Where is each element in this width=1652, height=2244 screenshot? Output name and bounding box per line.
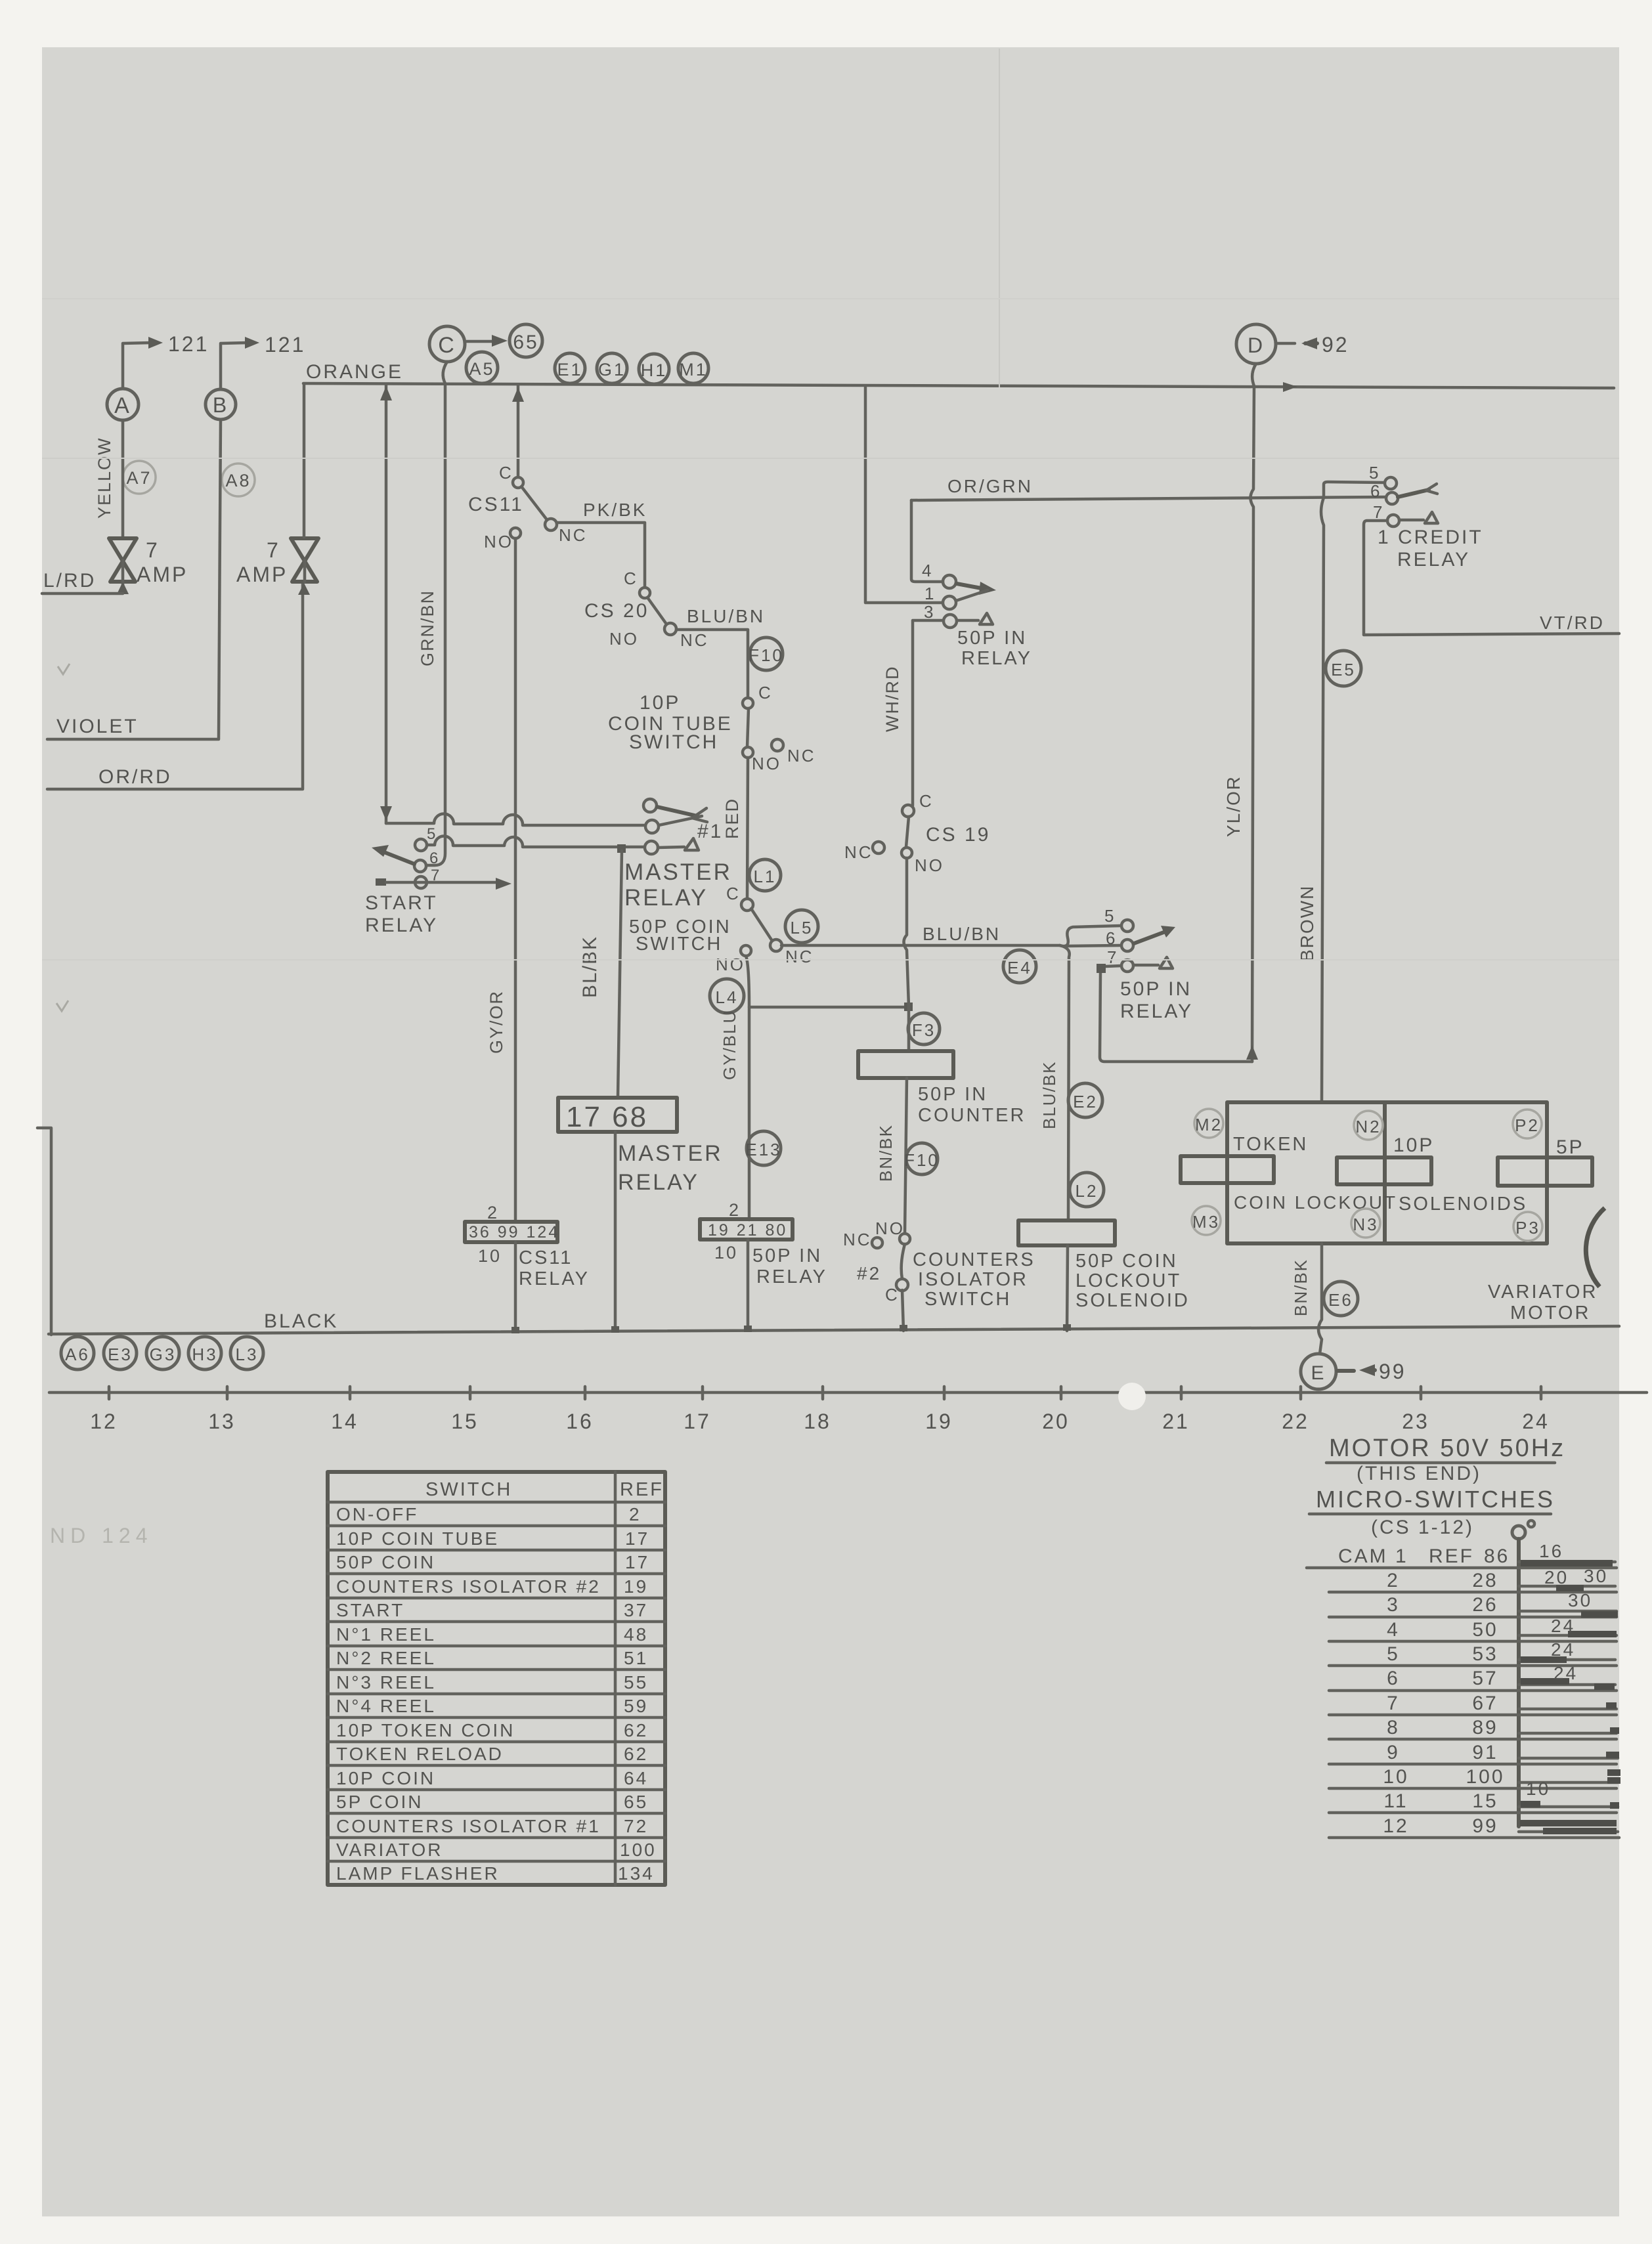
label MASTER RELAY (switch)	[624, 859, 732, 911]
svg-text:64: 64	[624, 1768, 648, 1788]
junction dots on black bus	[511, 1324, 1071, 1333]
svg-text:17: 17	[684, 1410, 711, 1433]
node L4	[710, 979, 744, 1013]
svg-text:CAM 1: CAM 1	[1338, 1545, 1408, 1567]
svg-text:YELLOW: YELLOW	[95, 437, 114, 519]
svg-text:20: 20	[1042, 1410, 1070, 1433]
svg-text:OR/RD: OR/RD	[98, 766, 172, 788]
svg-text:23: 23	[1402, 1410, 1429, 1433]
svg-text:18: 18	[804, 1410, 831, 1433]
svg-text:37: 37	[624, 1600, 648, 1620]
svg-text:AMP: AMP	[236, 563, 288, 586]
wire fuse2 up to ORANGE corner	[303, 384, 306, 537]
svg-text:36 99 124: 36 99 124	[469, 1223, 559, 1241]
svg-text:NO: NO	[609, 629, 639, 649]
scanner streak 2	[42, 959, 1619, 960]
wire isolator C to black bus	[902, 1290, 903, 1331]
fuse F2 7 AMP	[291, 538, 318, 595]
wire L4 branch to WH/RD	[749, 1003, 913, 1011]
svg-text:8: 8	[1387, 1717, 1400, 1738]
wire OR/RD	[47, 584, 303, 789]
svg-text:9: 9	[1387, 1742, 1400, 1763]
svg-text:134: 134	[618, 1863, 655, 1884]
svg-text:CS 19: CS 19	[926, 824, 990, 846]
node N3	[1351, 1209, 1380, 1238]
node G3	[146, 1337, 179, 1370]
svg-text:N°3 REEL: N°3 REEL	[336, 1672, 436, 1693]
svg-text:10P: 10P	[1393, 1134, 1434, 1156]
svg-text:L3: L3	[236, 1345, 259, 1364]
node E13	[745, 1131, 781, 1165]
node F10	[749, 637, 784, 670]
coin lockout solenoids box	[1227, 1102, 1547, 1243]
svg-text:10: 10	[1383, 1766, 1408, 1788]
svg-text:M2: M2	[1195, 1115, 1223, 1134]
node E6	[1324, 1282, 1358, 1316]
svg-text:RELAY: RELAY	[519, 1268, 590, 1289]
svg-text:N°4 REEL: N°4 REEL	[336, 1696, 436, 1716]
wire 50p NO down	[746, 956, 749, 1220]
fuse F1 7 AMP	[109, 538, 137, 582]
svg-text:SOLENOID: SOLENOID	[1076, 1290, 1190, 1311]
svg-text:P3: P3	[1515, 1218, 1540, 1238]
svg-text:NO: NO	[915, 855, 944, 875]
svg-text:A6: A6	[65, 1345, 90, 1364]
svg-text:MOTOR: MOTOR	[1510, 1303, 1590, 1324]
cam degree labels	[1526, 1541, 1608, 1799]
cam chart right upper lines	[1519, 1562, 1618, 1832]
wire 50p in relay coil to black bus	[747, 1240, 750, 1330]
node 65	[510, 324, 542, 357]
svg-text:M3: M3	[1192, 1212, 1220, 1232]
svg-text:50P IN: 50P IN	[752, 1245, 822, 1266]
svg-text:67: 67	[1472, 1693, 1498, 1714]
label CS11 RELAY	[519, 1247, 590, 1289]
svg-text:100: 100	[1466, 1766, 1504, 1788]
svg-text:E: E	[1311, 1362, 1326, 1384]
svg-text:GY/BLU: GY/BLU	[720, 1010, 739, 1080]
switch CS19	[844, 791, 990, 875]
svg-text:A5: A5	[469, 359, 494, 379]
wire B to 121	[221, 337, 259, 389]
svg-text:C: C	[758, 683, 773, 702]
svg-text:VARIATOR: VARIATOR	[1488, 1282, 1598, 1303]
svg-text:N°1 REEL: N°1 REEL	[336, 1624, 436, 1645]
svg-text:LOCKOUT: LOCKOUT	[1076, 1270, 1181, 1291]
svg-text:L1: L1	[754, 867, 777, 886]
svg-text:1 CREDIT: 1 CREDIT	[1378, 527, 1483, 548]
wire master coil to black bus	[614, 1132, 617, 1330]
svg-text:50P COIN: 50P COIN	[336, 1552, 435, 1572]
svg-text:A: A	[114, 393, 131, 418]
wire bus2 (with hops)	[425, 836, 646, 847]
svg-text:3: 3	[1387, 1594, 1400, 1616]
svg-text:10P COIN: 10P COIN	[336, 1768, 435, 1788]
svg-text:17 68: 17 68	[566, 1101, 648, 1133]
svg-text:5: 5	[1387, 1643, 1400, 1665]
wire GY/OR (CS11 NO down to relay box)	[514, 538, 517, 1220]
svg-text:6: 6	[1387, 1668, 1400, 1689]
svg-text:16: 16	[566, 1410, 594, 1433]
switch table rows	[336, 1504, 657, 1884]
svg-text:NC: NC	[843, 1230, 872, 1249]
svg-text:5: 5	[1104, 906, 1116, 926]
svg-text:91: 91	[1472, 1742, 1498, 1763]
svg-text:SWITCH: SWITCH	[629, 731, 718, 753]
node P3	[1513, 1212, 1542, 1241]
svg-text:PK/BK: PK/BK	[583, 500, 647, 520]
node L5	[785, 910, 818, 943]
svg-text:C: C	[726, 884, 741, 903]
svg-text:86: 86	[1484, 1545, 1510, 1567]
svg-text:L/RD: L/RD	[43, 570, 96, 592]
svg-text:C: C	[438, 333, 456, 358]
svg-text:CS 20: CS 20	[584, 600, 649, 622]
svg-text:48: 48	[624, 1624, 648, 1645]
label 50P IN COUNTER	[918, 1084, 1026, 1126]
svg-text:LAMP FLASHER: LAMP FLASHER	[336, 1863, 500, 1884]
wire BN/BK box to E node	[1318, 1243, 1322, 1354]
svg-text:NC: NC	[787, 746, 816, 766]
svg-text:BLU/BN: BLU/BN	[687, 606, 765, 626]
svg-text:121: 121	[265, 333, 305, 356]
wire fuse A bottom arrow	[117, 582, 129, 594]
svg-text:N°2 REEL: N°2 REEL	[336, 1648, 436, 1668]
svg-text:62: 62	[624, 1720, 648, 1740]
node H3	[188, 1337, 221, 1370]
svg-text:START: START	[365, 892, 438, 914]
node M3	[1192, 1206, 1221, 1235]
counter box 50P IN COUNTER	[858, 1051, 953, 1078]
wire BLU/BN horizontal	[781, 944, 1060, 947]
wire bus1 (with hops)	[386, 813, 647, 825]
svg-text:NO: NO	[875, 1219, 905, 1238]
svg-text:13: 13	[208, 1410, 236, 1433]
switch 50P IN RELAY (right)	[1104, 906, 1175, 972]
svg-text:7: 7	[1107, 947, 1118, 967]
node M2	[1194, 1109, 1223, 1138]
svg-text:53: 53	[1472, 1643, 1498, 1665]
svg-text:65: 65	[513, 332, 538, 353]
svg-text:99: 99	[1379, 1360, 1406, 1383]
node A6	[61, 1337, 94, 1370]
wire counter to isolator switch	[905, 1078, 907, 1234]
svg-text:NC: NC	[680, 630, 709, 650]
wire L/RD	[42, 592, 123, 595]
ruler line	[49, 1391, 1647, 1394]
svg-text:L4: L4	[716, 987, 739, 1007]
svg-text:10P COIN TUBE: 10P COIN TUBE	[336, 1528, 499, 1549]
label 10P COIN TUBE SWITCH	[608, 692, 733, 753]
label 50P IN RELAY (right switch)	[1120, 978, 1193, 1022]
svg-text:BLACK: BLACK	[264, 1310, 338, 1332]
svg-text:NO: NO	[752, 754, 781, 773]
wire CS11 relay to black bus	[514, 1242, 517, 1330]
label 7 AMP (F2)	[236, 538, 288, 586]
switch 50P IN RELAY contacts 4-1-3	[922, 561, 996, 628]
wire VT/RD	[1364, 634, 1619, 635]
svg-text:6: 6	[1106, 928, 1117, 948]
svg-text:5: 5	[427, 825, 437, 843]
node F3	[908, 1013, 940, 1045]
svg-text:15: 15	[451, 1410, 479, 1433]
svg-text:1: 1	[924, 584, 936, 603]
svg-text:24: 24	[1551, 1616, 1575, 1636]
svg-text:#2: #2	[857, 1263, 881, 1284]
node D (circle)	[1236, 324, 1276, 364]
svg-text:ORANGE: ORANGE	[306, 361, 403, 383]
relay coil box MASTER RELAY 17 68	[558, 1098, 677, 1133]
node H1	[639, 354, 669, 384]
node A5	[466, 352, 498, 383]
svg-text:E1: E1	[557, 360, 582, 379]
svg-text:BLU/BK: BLU/BK	[1039, 1061, 1059, 1130]
svg-text:121: 121	[168, 332, 209, 356]
svg-text:19: 19	[925, 1410, 953, 1433]
svg-text:G3: G3	[150, 1345, 177, 1364]
label 50P COIN SWITCH	[629, 917, 731, 955]
svg-text:VIOLET: VIOLET	[56, 716, 139, 737]
wire YL/OR (D down to relay loop)	[1251, 364, 1257, 1062]
svg-text:P2: P2	[1515, 1115, 1540, 1135]
svg-text:7: 7	[146, 538, 160, 562]
svg-text:B: B	[213, 393, 228, 417]
label 7 AMP (F1)	[137, 538, 188, 586]
svg-text:START: START	[336, 1600, 404, 1620]
svg-text:89: 89	[1472, 1717, 1498, 1738]
svg-text:99: 99	[1472, 1815, 1498, 1837]
svg-text:H3: H3	[192, 1345, 217, 1364]
wire RED	[747, 758, 748, 899]
svg-text:10: 10	[714, 1243, 738, 1262]
wire GRN/BN (C line down to contact 6)	[427, 384, 445, 865]
scanner streak 1	[42, 458, 1619, 459]
wire BLU/BN to F10 corner	[676, 630, 748, 698]
svg-text:COUNTERS ISOLATOR #1: COUNTERS ISOLATOR #1	[336, 1816, 601, 1836]
wire left edge stub	[37, 1128, 51, 1335]
svg-text:BN/BK: BN/BK	[1291, 1259, 1311, 1316]
svg-text:50: 50	[1472, 1619, 1498, 1641]
svg-text:19: 19	[624, 1576, 648, 1597]
node N2	[1354, 1111, 1383, 1140]
wire orange down to CS11 C	[512, 385, 524, 477]
variator motor arc	[1586, 1208, 1605, 1287]
svg-text:20: 20	[1544, 1567, 1569, 1587]
svg-text:50P IN: 50P IN	[1120, 978, 1192, 1000]
scanner streak 3	[42, 298, 1619, 299]
svg-text:10P TOKEN COIN: 10P TOKEN COIN	[336, 1720, 515, 1740]
svg-text:RELAY: RELAY	[961, 648, 1032, 669]
svg-text:4: 4	[922, 561, 933, 580]
svg-text:WH/RD: WH/RD	[882, 666, 902, 732]
svg-text:F10: F10	[904, 1150, 940, 1170]
svg-text:59: 59	[624, 1696, 648, 1716]
cam chart header CAM 1 REF 86	[1338, 1545, 1510, 1567]
svg-text:51: 51	[624, 1648, 648, 1668]
node P2	[1513, 1110, 1542, 1138]
svg-text:55: 55	[624, 1672, 648, 1693]
svg-text:92: 92	[1322, 333, 1349, 356]
svg-text:CS11: CS11	[468, 494, 524, 515]
switch 1 credit relay	[1324, 463, 1438, 634]
node L2	[1070, 1173, 1104, 1207]
node L3	[230, 1337, 263, 1370]
svg-text:SWITCH: SWITCH	[924, 1289, 1011, 1310]
switch start relay	[372, 825, 441, 888]
svg-text:E4: E4	[1007, 958, 1032, 978]
svg-text:3: 3	[924, 602, 935, 622]
label VARIATOR MOTOR	[1488, 1282, 1598, 1324]
svg-text:10: 10	[1526, 1779, 1550, 1799]
label START RELAY	[365, 892, 438, 936]
wire contact3 to WH/RD down	[913, 620, 944, 806]
svg-text:24: 24	[1522, 1410, 1550, 1433]
svg-text:TOKEN RELOAD: TOKEN RELOAD	[336, 1744, 504, 1764]
svg-text:2: 2	[487, 1203, 499, 1222]
svg-text:COUNTERS: COUNTERS	[913, 1249, 1035, 1270]
svg-text:100: 100	[620, 1840, 657, 1860]
relay coil box 50P IN RELAY 19 21 80	[700, 1200, 793, 1262]
svg-text:A7: A7	[126, 468, 152, 488]
wire orange to bus1 (x588)	[380, 384, 392, 823]
switch 50P coin switch	[716, 884, 814, 974]
svg-text:N2: N2	[1355, 1117, 1381, 1136]
solenoid bar TOKEN	[1181, 1156, 1274, 1183]
node L1	[749, 859, 781, 891]
svg-text:SWITCH: SWITCH	[425, 1479, 512, 1500]
svg-text:NO: NO	[716, 955, 745, 974]
svg-text:OR/GRN: OR/GRN	[947, 476, 1033, 496]
wire C hook to GRN/BN	[443, 362, 447, 383]
svg-text:COUNTERS ISOLATOR #2: COUNTERS ISOLATOR #2	[336, 1576, 601, 1597]
wire BLU/BN hook junction	[1060, 926, 1121, 946]
svg-text:BN/BK: BN/BK	[876, 1124, 896, 1182]
svg-text:17: 17	[625, 1552, 649, 1572]
svg-text:F10: F10	[749, 645, 784, 665]
svg-text:28: 28	[1472, 1570, 1498, 1591]
cam chart row separators	[1307, 1568, 1619, 1838]
svg-text:E13: E13	[745, 1140, 781, 1159]
label MASTER RELAY (coil)	[618, 1141, 723, 1195]
node E1	[555, 353, 585, 383]
arrow on orange bus near D	[1283, 382, 1297, 392]
svg-text:NO: NO	[484, 532, 513, 551]
svg-text:10P: 10P	[640, 692, 680, 714]
svg-text:TOKEN: TOKEN	[1233, 1134, 1308, 1155]
svg-text:5P: 5P	[1556, 1136, 1584, 1158]
svg-text:62: 62	[624, 1744, 648, 1764]
node A7	[123, 461, 156, 494]
svg-text:E5: E5	[1331, 660, 1356, 680]
svg-text:26: 26	[1472, 1594, 1498, 1616]
wire YELLOW (A to fuse)	[121, 420, 125, 537]
solenoid bar 10P	[1337, 1157, 1431, 1184]
stray pencil tick 2	[56, 1001, 68, 1011]
svg-text:GRN/BN: GRN/BN	[418, 590, 437, 666]
svg-text:72: 72	[624, 1816, 648, 1836]
svg-text:57: 57	[1472, 1668, 1498, 1689]
svg-text:ON-OFF: ON-OFF	[336, 1504, 418, 1524]
svg-text:RELAY: RELAY	[618, 1170, 699, 1195]
wire CS19 NO down with hook over BLU/BN	[904, 858, 909, 1049]
node F10 (lower)	[904, 1143, 940, 1175]
arrow C to 65	[467, 335, 508, 347]
svg-text:22: 22	[1282, 1410, 1309, 1433]
svg-text:NC: NC	[844, 842, 873, 862]
svg-text:5P COIN: 5P COIN	[336, 1792, 424, 1812]
switch 10P coin tube	[743, 683, 816, 773]
node E3	[104, 1337, 137, 1370]
svg-text:7: 7	[1373, 502, 1384, 522]
svg-text:RELAY: RELAY	[624, 885, 708, 911]
svg-text:24: 24	[1554, 1663, 1578, 1683]
wire A to 121	[123, 337, 163, 389]
svg-text:16: 16	[1539, 1541, 1563, 1561]
label 50P IN RELAY (top switch)	[957, 628, 1032, 669]
wire D to 92	[1276, 337, 1317, 349]
wire BROWN (OR/GRN to lockout box)	[1321, 498, 1324, 1102]
wire OR/GRN	[911, 497, 1385, 500]
wire ORANGE bus	[303, 383, 1614, 388]
label COUNTERS ISOLATOR SWITCH	[913, 1249, 1035, 1310]
svg-text:RELAY: RELAY	[365, 915, 438, 936]
svg-text:C: C	[624, 569, 638, 588]
wire solenoid to black bus	[1067, 1245, 1068, 1331]
cam timing thick bars	[1520, 1563, 1620, 1831]
svg-text:MOTOR 50V 50Hz: MOTOR 50V 50Hz	[1329, 1435, 1565, 1462]
node M1	[678, 353, 708, 383]
label 1 CREDIT RELAY	[1378, 527, 1483, 571]
svg-text:RED: RED	[722, 798, 742, 839]
svg-text:(CS 1-12): (CS 1-12)	[1371, 1517, 1474, 1538]
svg-text:L2: L2	[1076, 1181, 1098, 1201]
node E with arrow 99	[1301, 1354, 1375, 1389]
svg-text:6: 6	[1370, 481, 1381, 501]
svg-text:BL/BK: BL/BK	[579, 936, 601, 998]
svg-text:H1: H1	[641, 360, 668, 380]
svg-text:BLU/BN: BLU/BN	[923, 924, 1001, 944]
title MOTOR 50V 50Hz	[1326, 1435, 1565, 1463]
ruler numbers	[90, 1410, 1550, 1433]
switch CS20	[584, 569, 709, 650]
switch table frame	[328, 1472, 665, 1885]
svg-text:M1: M1	[679, 360, 708, 379]
svg-text:2: 2	[629, 1504, 641, 1524]
svg-text:CS11: CS11	[519, 1247, 573, 1268]
switch counters isolator #2	[843, 1219, 910, 1305]
svg-text:MASTER: MASTER	[618, 1141, 723, 1166]
svg-text:YL/OR: YL/OR	[1223, 775, 1244, 837]
svg-text:E6: E6	[1328, 1290, 1353, 1310]
svg-text:E3: E3	[108, 1345, 133, 1364]
cam shaft circle	[1512, 1521, 1534, 1539]
svg-text:C: C	[919, 791, 934, 811]
svg-text:REF: REF	[620, 1479, 664, 1500]
wire BLACK bus	[49, 1326, 1619, 1334]
wire PK/BK	[557, 523, 645, 590]
node A8	[222, 464, 255, 496]
svg-text:C: C	[499, 463, 513, 483]
svg-text:(THIS END): (THIS END)	[1357, 1463, 1481, 1484]
label 50P IN RELAY (coil)	[752, 1245, 827, 1287]
svg-text:C: C	[885, 1285, 900, 1305]
label 50P COIN LOCKOUT SOLENOID	[1076, 1251, 1190, 1311]
svg-text:12: 12	[90, 1410, 118, 1433]
svg-text:AMP: AMP	[137, 563, 188, 586]
svg-text:21: 21	[1162, 1410, 1190, 1433]
svg-text:#1: #1	[697, 821, 723, 842]
svg-text:VARIATOR: VARIATOR	[336, 1840, 443, 1860]
